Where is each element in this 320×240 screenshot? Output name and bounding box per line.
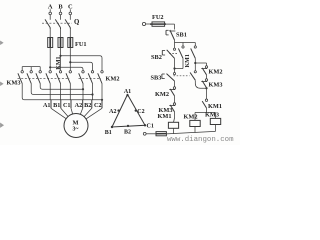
label KM2 coil xyxy=(184,113,198,120)
wire KM1/KM2 contacts to motor terminals xyxy=(50,84,102,100)
wire V3 bottom curve to V4 xyxy=(195,80,207,89)
fuse FU2 (bottom) xyxy=(146,132,166,136)
fuse FU1 (three cartridges) xyxy=(48,38,73,48)
wire split to KM2 KM3 coils xyxy=(195,113,215,121)
label SB3 xyxy=(151,75,162,82)
linkage dashes SB2 xyxy=(169,52,178,54)
wire tap phase C to KM2 column B2 (junction) xyxy=(69,61,92,70)
label terminal B2 xyxy=(84,102,91,109)
switch Q 3-pole knife switch xyxy=(42,19,72,29)
svg-text:FU1: FU1 xyxy=(75,41,87,48)
label KM3 (main) xyxy=(7,80,21,87)
label terminal A2 xyxy=(75,102,83,109)
contactor KM1 main contacts xyxy=(46,71,72,84)
label terminal A1 xyxy=(43,102,51,109)
svg-text:FU2: FU2 xyxy=(152,14,164,21)
wire phase B to switch xyxy=(60,15,62,20)
wire FU2 to SB1 xyxy=(165,24,175,29)
contact KM3 interlock (right rail) xyxy=(201,79,207,100)
wire KM3 pole2 to column B2 xyxy=(31,84,93,96)
svg-text:C1: C1 xyxy=(147,123,154,129)
wire terminals to motor xyxy=(51,108,102,119)
wire self-hold join node xyxy=(173,67,183,69)
wire control bus xyxy=(175,42,196,44)
node A phase terminal xyxy=(48,3,53,14)
linkage dashes KM2 xyxy=(79,77,102,79)
svg-text:KM2: KM2 xyxy=(155,91,169,98)
label terminal C1 xyxy=(63,102,71,109)
scan mark left 1 xyxy=(0,41,3,45)
svg-text:A1: A1 xyxy=(43,102,51,109)
node C1 (triangle bottom-right) xyxy=(144,123,154,129)
watermark www.diangon.com xyxy=(167,136,234,144)
wire V3 tee to V4 xyxy=(195,62,206,64)
delta connection triangle xyxy=(112,95,145,128)
contactor KM3 star contacts xyxy=(18,67,42,84)
label FU2 xyxy=(152,14,164,21)
node B1 (triangle bottom-left) xyxy=(105,126,113,136)
control bottom terminal xyxy=(143,132,146,135)
coil KM2 xyxy=(190,120,200,132)
wire phase A to switch xyxy=(49,15,51,20)
linkage dashes KM3-KM1 xyxy=(18,77,70,79)
contact KM2 interlock (left rail) xyxy=(169,87,175,103)
svg-text:KM2: KM2 xyxy=(106,76,120,83)
label KM3 (right rail) xyxy=(209,82,223,89)
contact KM2 interlock (right rail) xyxy=(201,63,207,79)
node A1 (triangle apex) xyxy=(124,89,131,96)
label SB2 xyxy=(151,54,162,61)
wire KM3 pole1 to column C2 xyxy=(22,84,103,101)
wire KM3 pole3 to column A2 xyxy=(40,84,84,91)
wire phase C to switch xyxy=(69,15,71,20)
scan mark left 3 xyxy=(0,123,4,128)
svg-text:KM1: KM1 xyxy=(185,54,191,67)
contact SB2-linked (branch V3) xyxy=(191,43,197,64)
svg-text:A2: A2 xyxy=(109,109,116,115)
wire phases FU1 to KM1 contacts xyxy=(50,48,70,71)
fuse FU2 xyxy=(150,22,166,26)
node A2 (triangle left edge) xyxy=(109,109,120,115)
scan mark left 2 xyxy=(0,82,3,86)
wire switch to FU1 xyxy=(50,28,70,38)
svg-text:C2: C2 xyxy=(137,109,144,115)
svg-text:B2: B2 xyxy=(124,129,131,135)
linkage dashes SB3 xyxy=(174,75,190,77)
label KM2 (main) xyxy=(106,76,120,83)
wire control bottom rail xyxy=(166,131,215,134)
contact KM3 interlock (left rail) xyxy=(169,103,175,123)
svg-text:www.diangon.com: www.diangon.com xyxy=(167,136,234,144)
label KM1 (right rail) xyxy=(208,103,222,110)
node C phase terminal xyxy=(68,3,73,14)
svg-text:3~: 3~ xyxy=(73,126,79,132)
contact KM1 aux (right rail) xyxy=(202,99,208,113)
wire terminal to FU2 xyxy=(146,23,150,25)
svg-text:SB2: SB2 xyxy=(151,54,162,61)
pushbutton SB3 (transition) xyxy=(162,69,176,88)
label FU1 xyxy=(75,41,87,48)
svg-text:SB3: SB3 xyxy=(151,75,162,82)
svg-text:B1: B1 xyxy=(105,130,112,136)
svg-text:KM1: KM1 xyxy=(208,103,222,110)
wire tap phase A to KM2 column A2 (junction) xyxy=(49,66,83,70)
label KM1 coil xyxy=(158,113,172,120)
pushbutton SB2 (NO start) xyxy=(162,43,175,69)
wire tap phase B to KM2 column C2 (junction) xyxy=(59,55,102,71)
coil KM3 xyxy=(210,118,220,131)
svg-text:KM2: KM2 xyxy=(209,69,223,76)
svg-text:KM1: KM1 xyxy=(56,56,62,69)
node B phase terminal xyxy=(58,3,63,14)
control supply terminal (top) xyxy=(142,22,145,25)
wire KM3 star point bar xyxy=(22,66,40,68)
contact SB3-linked NO (branch V3) xyxy=(190,62,196,80)
coil KM1 xyxy=(168,122,178,134)
contact KM1 aux self-hold xyxy=(178,43,184,69)
label terminal B1 xyxy=(53,102,60,109)
svg-text:B2: B2 xyxy=(84,102,91,109)
svg-text:KM2: KM2 xyxy=(184,113,198,120)
node C2 (triangle right edge) xyxy=(135,109,145,115)
svg-text:KM3: KM3 xyxy=(205,112,219,119)
contactor KM2 main contacts xyxy=(79,71,104,84)
label Q xyxy=(74,19,79,26)
label KM2 (left rail) xyxy=(155,91,169,98)
svg-text:C2: C2 xyxy=(94,102,102,109)
svg-text:KM1: KM1 xyxy=(158,113,172,120)
label terminal C2 xyxy=(94,102,102,109)
label SB1 xyxy=(176,32,187,39)
label KM3 coil xyxy=(205,112,219,119)
svg-text:A2: A2 xyxy=(75,102,83,109)
label KM1 (vertical, self-hold) xyxy=(185,54,191,67)
svg-text:KM3: KM3 xyxy=(209,82,223,89)
motor terminal bars A1 B1 C1 A2 B2 C2 xyxy=(51,100,102,109)
label KM3 (left rail) xyxy=(159,107,173,114)
svg-text:KM3: KM3 xyxy=(7,80,21,87)
svg-text:A1: A1 xyxy=(124,89,131,95)
pushbutton SB1 (NC stop) xyxy=(166,30,175,43)
svg-text:C1: C1 xyxy=(63,102,71,109)
svg-text:Q: Q xyxy=(74,19,79,26)
svg-text:SB1: SB1 xyxy=(176,32,187,39)
label KM1 (vertical) xyxy=(56,56,62,69)
motor M 3-phase xyxy=(64,114,88,138)
label KM2 (right rail) xyxy=(209,69,223,76)
node B2 (triangle bottom edge) xyxy=(124,125,131,136)
svg-text:B1: B1 xyxy=(53,102,60,109)
